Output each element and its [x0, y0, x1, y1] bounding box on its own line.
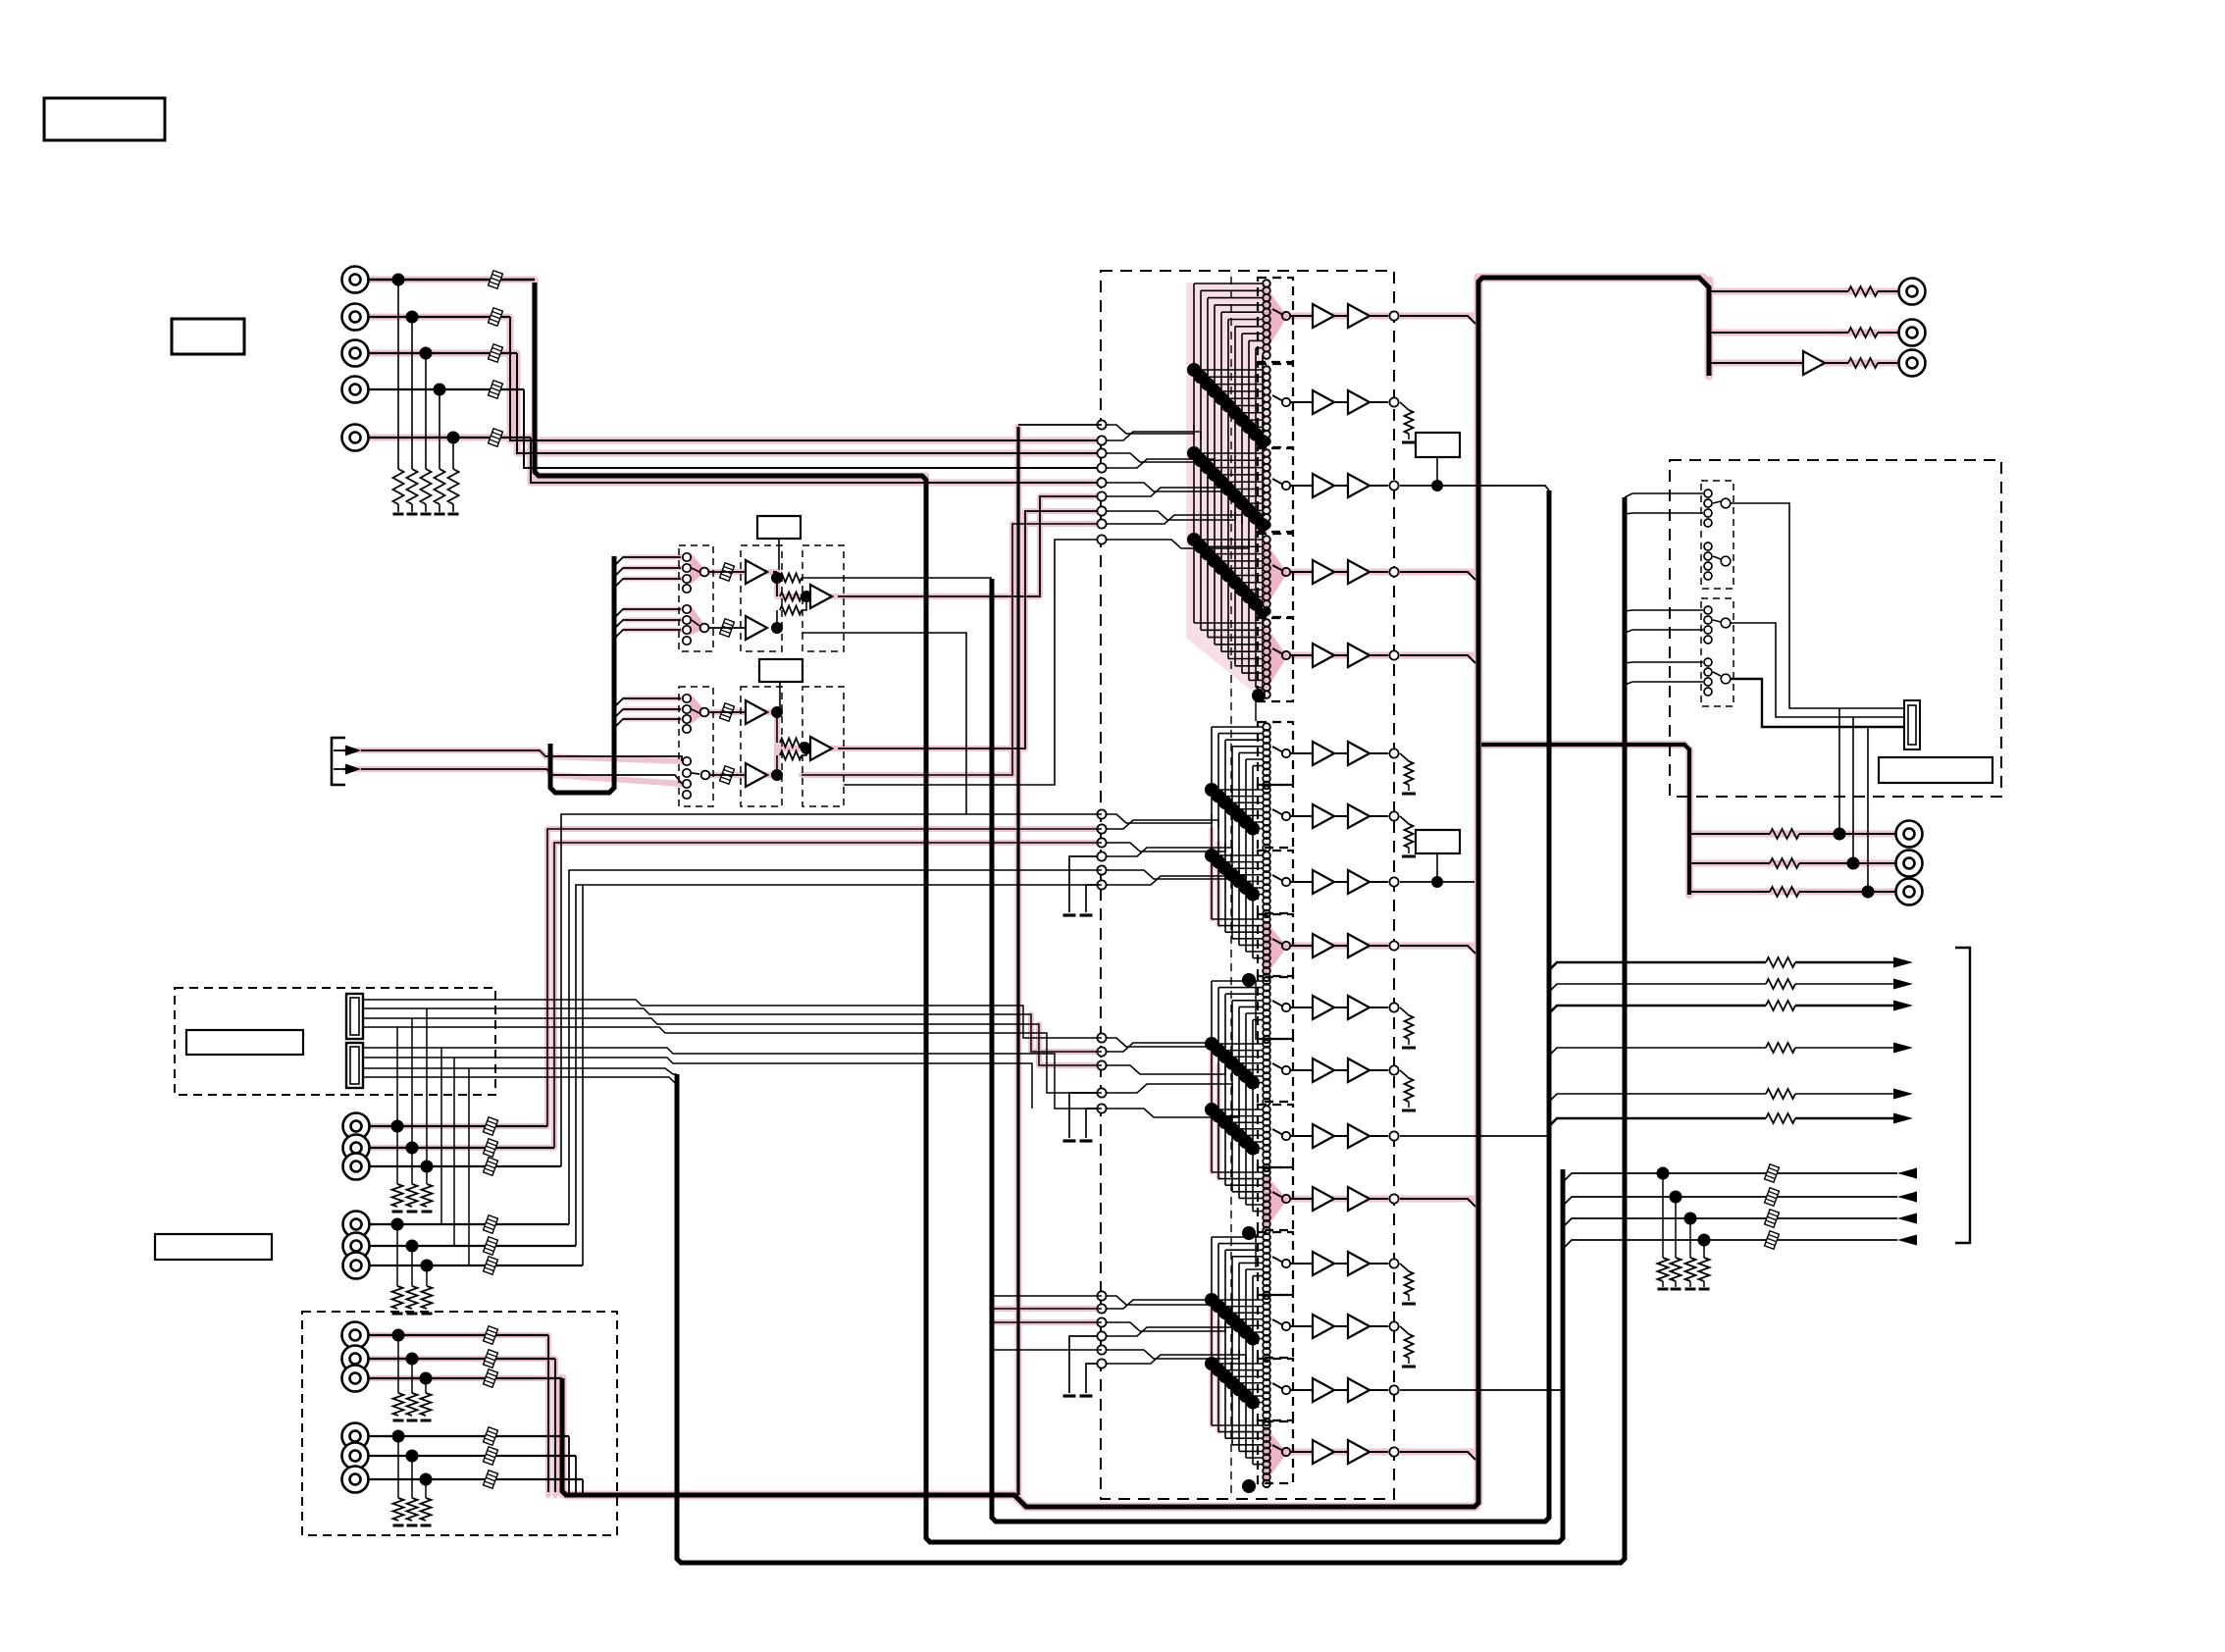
- wire: [1334, 401, 1348, 403]
- ferrite bead: [484, 1471, 498, 1488]
- wiper contact: [1272, 479, 1283, 485]
- wire: [1564, 1240, 1897, 1248]
- wire: [1218, 1306, 1264, 1308]
- termination resistor: [452, 438, 454, 469]
- wire: [1212, 918, 1264, 920]
- junction: [1208, 468, 1221, 482]
- switch contact group box: [1258, 278, 1293, 362]
- buffer amp: [1313, 304, 1334, 328]
- mix resistor 1: [780, 593, 802, 601]
- wire: [1400, 486, 1549, 490]
- matrix bus line: [1238, 1263, 1240, 1451]
- output node: [1389, 397, 1398, 406]
- junction: [1431, 480, 1443, 491]
- wire: [1194, 539, 1264, 541]
- wire: [1069, 1336, 1097, 1393]
- termination resistor: [397, 280, 399, 469]
- wire: [1334, 881, 1348, 883]
- wire: [1253, 957, 1264, 959]
- junction: [1194, 540, 1208, 553]
- junction: [1205, 783, 1218, 797]
- wire phono A out: [838, 496, 1102, 596]
- connector block (dashed): [175, 988, 495, 1095]
- switch contacts: [1263, 977, 1270, 985]
- wire tap: [1625, 630, 1703, 633]
- wire: [1795, 1047, 1897, 1049]
- buffer amp: [1348, 644, 1370, 667]
- wire: [1291, 945, 1313, 947]
- wire: [582, 885, 584, 1265]
- wire: [1370, 315, 1388, 317]
- wire pink feed to node 1: [1018, 424, 1102, 426]
- wire: [1334, 315, 1348, 317]
- wire: [1370, 1451, 1388, 1453]
- junction: [391, 1120, 404, 1133]
- switch contacts: [1263, 1040, 1270, 1048]
- wire: [1334, 945, 1348, 947]
- wire tap: [614, 709, 681, 718]
- switch contact group box: [1258, 722, 1293, 785]
- wire: [1212, 1109, 1264, 1110]
- termination resistor: [1703, 1240, 1705, 1258]
- wire: [1232, 1256, 1264, 1258]
- buffer amp: [1313, 1058, 1334, 1082]
- wire: [1102, 1109, 1239, 1117]
- wire: [396, 1027, 398, 1126]
- switch contact group box: [1258, 1295, 1293, 1358]
- mix resistor 2: [776, 610, 778, 628]
- junction: [1194, 370, 1208, 384]
- junction: [1215, 391, 1228, 405]
- wire: [1253, 1402, 1264, 1404]
- wire: [1795, 1093, 1897, 1095]
- phono block B buffers box: [741, 687, 782, 806]
- junction: [802, 743, 806, 755]
- wire: [1852, 717, 1854, 863]
- matrix bus line: [1207, 298, 1209, 638]
- ground: [452, 504, 454, 512]
- wire: [1249, 339, 1264, 341]
- wire: [1102, 1327, 1232, 1336]
- wire: [1689, 891, 1770, 893]
- wire: [1242, 589, 1264, 591]
- wire: [1253, 765, 1264, 767]
- matrix bus line: [1217, 1244, 1219, 1432]
- wire: [992, 1295, 1102, 1297]
- wire: [1102, 1043, 1218, 1052]
- phono block A contacts box: [679, 545, 713, 651]
- switch contacts: [1263, 1168, 1270, 1176]
- junction: [1239, 815, 1253, 829]
- wire tap: [614, 609, 681, 618]
- ground: [422, 1313, 433, 1316]
- selector fan (selected path): [1263, 917, 1287, 980]
- wire: [1334, 815, 1348, 817]
- wire: [1225, 867, 1264, 869]
- buffer amp: [1348, 1187, 1370, 1211]
- wire: [1208, 637, 1264, 639]
- wire: [1228, 575, 1264, 577]
- ground: [1408, 785, 1410, 791]
- resistor: [1766, 1089, 1795, 1099]
- buffer amp: [1313, 1124, 1334, 1148]
- wire: [1201, 629, 1264, 631]
- junction: [1215, 561, 1228, 575]
- matrix bus line: [1227, 320, 1229, 659]
- wire: [1218, 1178, 1264, 1180]
- junction: [1201, 547, 1215, 561]
- ferrite bead: [484, 1447, 498, 1465]
- ground: [1408, 1295, 1410, 1301]
- phono block A mix box: [802, 545, 844, 651]
- junction: [1684, 1213, 1697, 1225]
- wire: [1291, 1069, 1313, 1071]
- phono B selector switch upper: [690, 693, 706, 725]
- junction: [1232, 1382, 1246, 1396]
- input jack 5: [342, 425, 369, 451]
- wire: [1400, 402, 1409, 410]
- wire: [1256, 687, 1264, 689]
- wire: [1334, 1263, 1348, 1265]
- wire: [1215, 560, 1264, 562]
- wire: [1215, 474, 1264, 476]
- wire: [1225, 993, 1264, 995]
- wire: [1225, 739, 1264, 741]
- wire: [1232, 1318, 1264, 1320]
- wire: [1102, 843, 1225, 852]
- resistor: [1766, 1113, 1795, 1123]
- ground: [1408, 848, 1410, 853]
- junction: [771, 622, 783, 634]
- switch contact group box: [1258, 785, 1293, 848]
- wire: [1069, 856, 1097, 912]
- output node: [1389, 481, 1398, 490]
- ferrite bead: [484, 1237, 498, 1255]
- wire: [1263, 440, 1264, 442]
- wire: [1255, 981, 1257, 1040]
- wire: [561, 1378, 563, 1492]
- wire: [1232, 874, 1264, 876]
- wire: [369, 1245, 576, 1247]
- wire: [1263, 694, 1264, 696]
- wire: [368, 1478, 583, 1480]
- wire: [1370, 815, 1388, 817]
- wire: [1225, 801, 1264, 803]
- ground: [1063, 913, 1076, 916]
- resistor: [1848, 358, 1878, 368]
- ground: [397, 504, 399, 512]
- termination resistor: [1662, 1173, 1664, 1258]
- wire: [1102, 1355, 1246, 1364]
- wire: [575, 1456, 577, 1495]
- buffer amp: [1348, 1252, 1370, 1275]
- junction: [1218, 1369, 1232, 1383]
- wire: [1549, 1006, 1766, 1013]
- wire: [368, 316, 510, 318]
- termination resistor: [397, 1335, 399, 1393]
- wire: [1291, 1135, 1313, 1137]
- wire: [1102, 1350, 1239, 1359]
- wire: [1246, 887, 1264, 889]
- junction: [1228, 576, 1242, 590]
- switch contacts: [1263, 366, 1270, 374]
- wire: [1246, 1457, 1264, 1459]
- matrix bus line: [1252, 1276, 1254, 1465]
- switch contacts: [1263, 1233, 1270, 1241]
- junction: [1249, 597, 1263, 611]
- junction: [1256, 518, 1269, 532]
- wire: [1246, 1012, 1264, 1014]
- wire: [1212, 1171, 1264, 1173]
- junction: [447, 432, 460, 444]
- wire: [1253, 1338, 1264, 1340]
- wire: [368, 1358, 555, 1360]
- ferrite bead: [484, 1158, 498, 1175]
- wire: [1400, 1199, 1475, 1207]
- wire: [1334, 1007, 1348, 1008]
- resistor: [1405, 1271, 1414, 1295]
- matrix bus line: [1217, 988, 1219, 1179]
- wire: [1709, 290, 1848, 292]
- wire: [1102, 814, 1212, 823]
- wire: [1239, 944, 1264, 946]
- wire: [368, 1334, 548, 1336]
- wire: [368, 1377, 562, 1379]
- junction: [420, 1372, 433, 1385]
- wire: [1102, 453, 1208, 462]
- switch contacts: [1263, 619, 1270, 627]
- ground: [1408, 1039, 1410, 1045]
- switch contact group box: [1258, 976, 1293, 1039]
- wire: [1102, 488, 1228, 496]
- wire: [1731, 623, 1904, 717]
- wiper contact: [1272, 875, 1283, 881]
- termination resistor: [425, 1479, 427, 1498]
- junction: [1221, 569, 1235, 583]
- wire phono B out: [838, 511, 1102, 749]
- input jack 2: [342, 304, 369, 331]
- wire: [1370, 1069, 1388, 1071]
- wiper contact: [1272, 1445, 1283, 1451]
- wire: [1249, 509, 1264, 511]
- wire: [1218, 925, 1264, 927]
- selector fan (selected path): [1263, 282, 1287, 356]
- wiper contact: [1272, 309, 1283, 315]
- buffer amp: [1348, 804, 1370, 828]
- right switch block (dashed): [1670, 460, 2001, 797]
- wire: [576, 885, 1102, 1246]
- matrix bus line: [1193, 284, 1195, 623]
- ferrite bead: [489, 344, 503, 362]
- wire: [1218, 1115, 1264, 1117]
- junction: [1242, 590, 1256, 603]
- buffer amp: [1348, 560, 1370, 584]
- ferrite bead: [484, 1139, 498, 1157]
- junction: [1218, 861, 1232, 875]
- junction: [1187, 446, 1201, 460]
- output node: [1389, 1259, 1398, 1267]
- junction: [1249, 511, 1263, 525]
- matrix internal separator (dashed): [1230, 271, 1232, 1499]
- junction: [1205, 1037, 1218, 1051]
- wire: [1228, 405, 1264, 407]
- ferrite bead: [484, 1369, 498, 1387]
- ground: [1080, 1394, 1093, 1397]
- wire: [1102, 425, 1194, 434]
- buffer amp: [1348, 742, 1370, 765]
- wire: [363, 1077, 677, 1085]
- wire: [554, 843, 1102, 1148]
- junction: [1218, 1306, 1232, 1319]
- wire: [1225, 1249, 1264, 1251]
- wire: [1731, 679, 1904, 727]
- resistor: [1766, 1001, 1795, 1010]
- resistor: [1405, 1334, 1414, 1358]
- ground: [411, 504, 413, 512]
- termination resistor: [425, 353, 427, 469]
- junction: [1232, 1062, 1246, 1076]
- output node: [1389, 811, 1398, 820]
- signal arrow out: [1893, 1089, 1913, 1100]
- output node: [1389, 311, 1398, 320]
- resistor: [1405, 410, 1414, 434]
- ferrite bead: [484, 1215, 498, 1233]
- matrix bus line: [1252, 1020, 1254, 1212]
- matrix bus line: [1231, 1257, 1233, 1445]
- title box: [44, 98, 165, 140]
- wire: [1212, 1236, 1264, 1238]
- wire tap: [614, 719, 681, 728]
- termination resistor: [1689, 1218, 1691, 1258]
- wire: [1400, 1135, 1549, 1137]
- matrix bus line: [1231, 747, 1233, 939]
- tape jack in 6: [343, 1253, 370, 1279]
- junction: [1252, 689, 1266, 702]
- wiper contact: [1272, 1129, 1283, 1135]
- input jack 3: [342, 340, 369, 367]
- switch contacts: [1263, 1421, 1270, 1429]
- junction: [1215, 475, 1228, 489]
- buffer amp: [1348, 1315, 1370, 1338]
- wire: [453, 1058, 455, 1246]
- junction: [1256, 604, 1269, 618]
- matrix bus line: [1255, 348, 1257, 688]
- wire: [1208, 553, 1264, 555]
- resistor: [1405, 761, 1414, 785]
- switch contact group box: [1258, 1420, 1293, 1483]
- wire: [363, 1027, 1102, 1093]
- wire: [1232, 1444, 1264, 1446]
- ferrite bead: [1765, 1164, 1780, 1182]
- wire: [1878, 332, 1899, 334]
- junction: [1242, 503, 1256, 517]
- signal arrow out: [1893, 1113, 1913, 1124]
- junction: [1232, 1128, 1246, 1142]
- wire: [1564, 1173, 1897, 1181]
- wire: [369, 1165, 561, 1167]
- wire tap: [1625, 513, 1703, 514]
- signal arrow out: [1893, 1043, 1913, 1054]
- resistor: [1405, 1078, 1414, 1102]
- wire: [517, 353, 1102, 453]
- wire: [1564, 1218, 1897, 1226]
- output node: [1389, 1003, 1398, 1011]
- resistor: [1770, 887, 1799, 897]
- wire: [1235, 582, 1264, 584]
- junction: [392, 1329, 405, 1342]
- buffer amp: [1348, 1440, 1370, 1464]
- wire: [1549, 984, 1766, 992]
- wire: [1291, 815, 1313, 817]
- wire: [1235, 412, 1264, 414]
- wire: [1291, 881, 1313, 883]
- junction: [1232, 808, 1246, 822]
- junction: [1246, 1332, 1260, 1346]
- phono B selector switch lower: [683, 757, 691, 765]
- wire: [1400, 816, 1409, 824]
- resistor: [1766, 957, 1795, 967]
- junction: [1201, 378, 1215, 391]
- output jack: [1899, 350, 1926, 377]
- buffer amp: [1313, 742, 1334, 765]
- junction: [1225, 1122, 1239, 1136]
- ground: [439, 504, 440, 512]
- wire tap: [614, 630, 681, 639]
- wire: [1253, 1275, 1264, 1277]
- wire: [1225, 1056, 1264, 1058]
- wire: [1086, 1109, 1097, 1138]
- wire: [1256, 434, 1264, 436]
- junction: [1242, 420, 1256, 434]
- wire: [1212, 1363, 1264, 1365]
- ground: [1703, 1281, 1705, 1287]
- ground: [407, 1211, 418, 1213]
- buffer amp: [1348, 390, 1370, 414]
- matrix bus line: [1224, 994, 1226, 1185]
- buffer amp: [1313, 1187, 1334, 1211]
- wire: [1370, 1263, 1388, 1265]
- wire: [1549, 962, 1766, 970]
- wire: [1253, 1464, 1264, 1466]
- mix resistor 4: [776, 755, 778, 775]
- junction: [771, 706, 783, 718]
- junction: [1205, 1293, 1218, 1307]
- wire: [1878, 362, 1899, 364]
- wire tap: [614, 579, 681, 588]
- output node: [1389, 749, 1398, 757]
- wire: [361, 750, 682, 761]
- matrix bus line: [1245, 1269, 1247, 1458]
- wire: [363, 1000, 1102, 1038]
- junction: [1205, 1357, 1218, 1370]
- wire: [1218, 987, 1264, 989]
- wire: [1291, 315, 1313, 317]
- label box right 2: [1416, 830, 1460, 853]
- wire: [1194, 452, 1264, 454]
- ferrite bead: [484, 1257, 498, 1274]
- label box: [172, 319, 244, 354]
- signal arrow in: [1897, 1213, 1917, 1224]
- ribbon connector 1: [346, 994, 363, 1039]
- wire: [368, 352, 517, 354]
- junction: [1218, 796, 1232, 809]
- selector fan (selected path): [1263, 1170, 1287, 1233]
- wire: [1246, 1331, 1264, 1333]
- junction: [1698, 1234, 1711, 1247]
- wire: [1225, 1437, 1264, 1439]
- wire: [1334, 654, 1348, 656]
- wire: [1246, 1141, 1264, 1143]
